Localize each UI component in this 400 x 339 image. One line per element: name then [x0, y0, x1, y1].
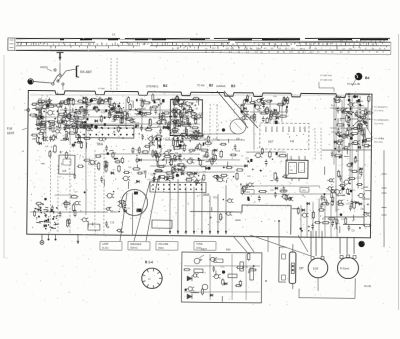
svg-text:33K: 33K [200, 137, 205, 139]
svg-text:B2: B2 [231, 84, 235, 88]
svg-text:TO SP(RIGHT): TO SP(RIGHT) [374, 119, 389, 121]
svg-text:OP: OP [299, 266, 304, 270]
svg-text:(TO AM 2W): (TO AM 2W) [320, 79, 332, 82]
svg-text:TO SP(LEFT): TO SP(LEFT) [374, 106, 388, 108]
svg-text:10K: 10K [45, 102, 50, 104]
svg-text:33K: 33K [357, 115, 362, 118]
svg-text:C21: C21 [240, 104, 245, 107]
svg-text:220: 220 [352, 190, 355, 192]
svg-text:(50K): (50K) [158, 247, 164, 250]
svg-text:0.02: 0.02 [236, 151, 241, 153]
svg-text:220: 220 [128, 167, 131, 169]
svg-text:(PU-2W): (PU-2W) [374, 141, 383, 143]
svg-text:E2R: E2R [313, 267, 318, 271]
svg-text:1K: 1K [179, 160, 182, 163]
svg-text:0.02: 0.02 [88, 164, 93, 166]
svg-text:(6.3V): (6.3V) [102, 247, 109, 250]
svg-text:B4: B4 [365, 76, 369, 80]
svg-text:33K: 33K [188, 152, 192, 154]
svg-text:(7.5 ohm): (7.5 ohm) [374, 123, 384, 125]
svg-text:R31: R31 [213, 197, 218, 199]
svg-text:B: B [265, 279, 267, 283]
svg-text:10K: 10K [236, 139, 241, 141]
svg-text:FM: FM [226, 248, 231, 252]
svg-text:C15: C15 [166, 137, 171, 140]
svg-text:DET: DET [201, 248, 207, 252]
svg-text:C15: C15 [110, 222, 115, 225]
svg-text:R7: R7 [56, 138, 59, 140]
svg-text:AM(S): AM(S) [40, 65, 48, 69]
svg-text:DET: DET [268, 139, 274, 143]
svg-text:UNIT: UNIT [7, 131, 15, 135]
svg-text:B2: B2 [163, 84, 167, 88]
svg-text:5KB: 5KB [203, 193, 210, 197]
svg-text:B 1-4: B 1-4 [145, 260, 153, 264]
svg-text:(STEREO): (STEREO) [146, 84, 159, 88]
svg-text:SPEAKER: SPEAKER [130, 243, 142, 246]
svg-text:F.M: F.M [7, 127, 13, 131]
svg-text:VOLUME: VOLUME [158, 243, 169, 246]
svg-text:47: 47 [279, 105, 281, 107]
svg-text:ST AM: ST AM [98, 87, 105, 90]
svg-text:(GRAM): (GRAM) [216, 84, 226, 88]
svg-text:16.: 16. [112, 32, 116, 36]
svg-text:0.02: 0.02 [357, 178, 362, 180]
svg-text:(7.5 ohm): (7.5 ohm) [374, 110, 384, 112]
svg-text:SK-66T: SK-66T [80, 70, 93, 74]
svg-text:TO GRAM: TO GRAM [374, 137, 384, 140]
svg-text:10K: 10K [331, 132, 335, 134]
svg-text:GB: GB [62, 169, 66, 173]
svg-text:R12: R12 [61, 122, 66, 125]
svg-text:LAMP: LAMP [102, 243, 109, 246]
svg-text:R31: R31 [273, 96, 277, 98]
svg-text:4.7K: 4.7K [354, 102, 359, 104]
svg-text:220: 220 [166, 174, 171, 177]
svg-text:C15: C15 [365, 146, 370, 149]
svg-text:FM-5E: FM-5E [364, 285, 372, 288]
svg-text:10K: 10K [247, 176, 251, 178]
svg-text:TO AM: TO AM [197, 84, 204, 87]
svg-text:R-3(set): R-3(set) [340, 267, 350, 271]
svg-text:(TO AE 5W): (TO AE 5W) [320, 74, 332, 77]
svg-text:68: 68 [339, 120, 341, 122]
svg-text:TONE: TONE [196, 243, 203, 246]
svg-text:4.7K: 4.7K [334, 228, 339, 230]
svg-text:FM: FM [290, 139, 295, 143]
svg-text:B2: B2 [209, 84, 213, 88]
svg-text:(8ohm): (8ohm) [130, 247, 138, 250]
svg-text:5KA: 5KA [97, 142, 104, 146]
